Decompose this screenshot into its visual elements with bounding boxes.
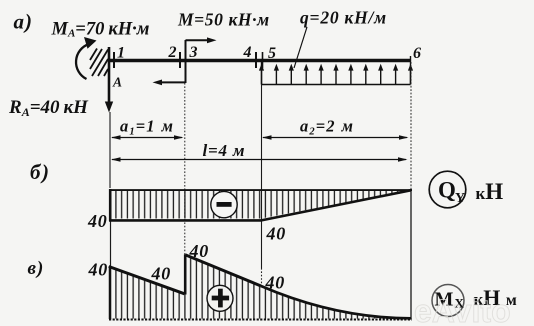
M jump line — [184, 255, 187, 295]
extension line left between diagrams — [110, 219, 112, 266]
applied moment M couple — [153, 37, 217, 85]
node 5 tick — [262, 52, 264, 68]
moment MA arc arrow — [76, 44, 89, 79]
M top segment 1 — [109, 267, 185, 294]
extension line left — [109, 112, 111, 188]
M diagram hatching — [111, 255, 405, 318]
svg-text:а): а) — [14, 10, 34, 34]
construction line node6 lower — [410, 189, 412, 319]
MX circle — [432, 285, 464, 317]
Q diagram minus circle — [211, 191, 237, 217]
svg-text:б): б) — [30, 160, 50, 184]
svg-text:eAvito: eAvito — [414, 293, 511, 326]
M left edge — [109, 266, 112, 319]
svg-text:2: 2 — [168, 44, 177, 61]
node 2 tick — [179, 52, 181, 68]
svg-text:l=4м: l=4м — [203, 141, 246, 160]
svg-text:q=20кН/м: q=20кН/м — [300, 8, 387, 28]
svg-text:1: 1 — [117, 45, 125, 62]
dimension l=4m — [111, 157, 408, 161]
svg-text:Q: Q — [438, 178, 456, 203]
construction line node3 — [184, 83, 186, 255]
QY circle — [429, 171, 466, 208]
node 4 tick — [255, 52, 257, 68]
M baseline — [109, 319, 412, 321]
svg-text:в): в) — [28, 258, 45, 279]
svg-text:4: 4 — [243, 44, 252, 61]
svg-text:40: 40 — [189, 241, 210, 261]
Q diagram hatching — [111, 191, 412, 219]
M top segment 2 — [185, 255, 261, 286]
M diagram plus circle — [207, 285, 233, 311]
Q sloping edge — [261, 190, 411, 220]
svg-text:а1=1м: а1=1м — [120, 117, 174, 138]
construction line node5 — [261, 84, 263, 268]
Q bottom edge — [109, 219, 261, 222]
svg-text:Y: Y — [455, 191, 465, 206]
svg-text:40: 40 — [265, 272, 286, 292]
svg-text:5: 5 — [268, 45, 276, 62]
svg-text:6: 6 — [413, 45, 421, 62]
reaction RA arrow head — [105, 102, 113, 113]
svg-text:М=50кН·м: М=50кН·м — [177, 10, 270, 30]
svg-text:40: 40 — [151, 263, 172, 283]
Q left edge — [109, 189, 112, 221]
svg-text:40: 40 — [266, 224, 287, 244]
svg-text:МА=70кН·м: МА=70кН·м — [51, 20, 150, 40]
dimension a1 — [111, 135, 184, 139]
dimension a2 — [262, 135, 409, 139]
beam — [108, 59, 411, 63]
svg-text:а2=2м: а2=2м — [300, 117, 354, 138]
svg-text:А: А — [112, 75, 122, 90]
svg-text:40: 40 — [88, 259, 109, 279]
fixed support wall hatching — [90, 49, 108, 77]
node 1 tick — [113, 52, 115, 68]
svg-text:40: 40 — [87, 211, 108, 231]
M parabola — [261, 286, 411, 318]
construction line node6 upper — [410, 62, 412, 189]
svg-text:RА=40кН: RА=40кН — [8, 97, 89, 119]
distributed load q — [259, 56, 413, 85]
leader line from q label — [294, 27, 307, 68]
Q zero line — [109, 189, 412, 191]
svg-text:3: 3 — [189, 44, 198, 61]
support edge line — [108, 47, 111, 103]
